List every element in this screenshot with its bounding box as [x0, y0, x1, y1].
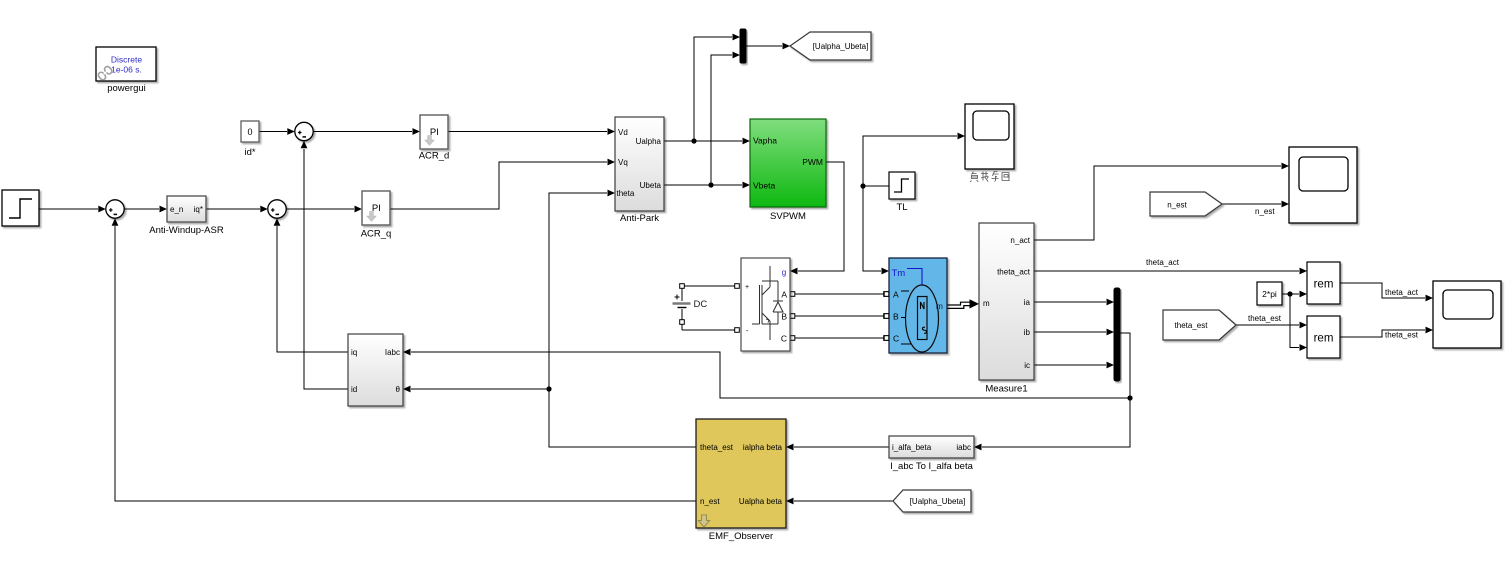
svg-text:A: A: [781, 290, 787, 300]
svg-text:B: B: [781, 312, 787, 322]
svg-text:theta_est: theta_est: [1385, 331, 1419, 340]
svg-text:theta_act: theta_act: [1385, 288, 1419, 297]
svg-text:m: m: [983, 299, 990, 308]
svg-text:Iabc: Iabc: [385, 348, 400, 357]
svg-text:theta_est: theta_est: [700, 443, 734, 452]
svg-text:iq: iq: [351, 348, 357, 357]
svg-text:2*pi: 2*pi: [1262, 289, 1277, 299]
svg-text:e_n: e_n: [170, 205, 183, 214]
svg-text:n_act: n_act: [1010, 236, 1030, 245]
svg-text:A: A: [893, 290, 899, 300]
svg-text:Vbeta: Vbeta: [753, 181, 775, 191]
svg-text:powergui: powergui: [107, 83, 146, 94]
svg-text:1e-06 s.: 1e-06 s.: [111, 65, 142, 75]
svg-text:theta_est: theta_est: [1248, 314, 1282, 323]
svg-text:Vapha: Vapha: [753, 136, 777, 146]
svg-text:B: B: [893, 312, 899, 322]
svg-text:SVPWM: SVPWM: [770, 211, 806, 222]
svg-text:C: C: [781, 334, 787, 344]
svg-text:Ualpha: Ualpha: [636, 137, 662, 146]
svg-text:Tm: Tm: [892, 268, 906, 279]
svg-text:theta_est: theta_est: [1175, 321, 1209, 330]
svg-text:rem: rem: [1314, 333, 1334, 345]
svg-text:ic: ic: [1024, 361, 1030, 370]
svg-text:iq*: iq*: [194, 205, 203, 214]
svg-text:Discrete: Discrete: [111, 55, 142, 65]
svg-text:rem: rem: [1314, 279, 1334, 291]
svg-text:g: g: [782, 268, 786, 277]
svg-text:Measure1: Measure1: [985, 384, 1027, 395]
svg-text:C: C: [893, 334, 899, 344]
svg-text:theta: theta: [617, 189, 635, 198]
svg-text:id: id: [351, 385, 357, 394]
svg-text:n_est: n_est: [1167, 201, 1187, 210]
svg-text:ia: ia: [1024, 298, 1031, 307]
svg-text:ialpha beta: ialpha beta: [743, 443, 783, 452]
svg-text:ACR_d: ACR_d: [419, 151, 450, 162]
svg-text:Vd: Vd: [618, 128, 628, 137]
svg-text:Ualpha beta: Ualpha beta: [739, 497, 783, 506]
svg-text:i_alfa_beta: i_alfa_beta: [892, 443, 932, 452]
svg-text:[Ualpha_Ubeta]: [Ualpha_Ubeta]: [910, 497, 966, 506]
svg-text:TL: TL: [896, 202, 907, 213]
svg-text:n_est: n_est: [1255, 207, 1275, 216]
svg-text:I_abc To I_alfa beta: I_abc To I_alfa beta: [890, 461, 973, 472]
svg-text:Vq: Vq: [618, 158, 628, 167]
svg-text:PWM: PWM: [802, 157, 823, 167]
svg-text:theta_act: theta_act: [1146, 258, 1180, 267]
svg-text:n_est: n_est: [700, 497, 720, 506]
svg-text:Ubeta: Ubeta: [640, 181, 662, 190]
svg-text:iabc: iabc: [956, 443, 971, 452]
svg-text:m: m: [936, 301, 943, 311]
svg-text:DC: DC: [694, 299, 708, 310]
svg-text:ACR_q: ACR_q: [361, 229, 392, 240]
svg-text:ib: ib: [1024, 328, 1031, 337]
svg-text:θ: θ: [396, 385, 401, 394]
svg-text:Anti-Park: Anti-Park: [620, 213, 659, 224]
svg-text:0: 0: [247, 127, 252, 137]
svg-text:theta_act: theta_act: [997, 268, 1031, 277]
svg-text:+: +: [745, 284, 749, 291]
svg-text:id*: id*: [244, 147, 255, 158]
svg-text:Anti-Windup-ASR: Anti-Windup-ASR: [149, 225, 224, 236]
svg-text:EMF_Observer: EMF_Observer: [709, 531, 773, 542]
svg-text:[Ualpha_Ubeta]: [Ualpha_Ubeta]: [813, 42, 869, 51]
